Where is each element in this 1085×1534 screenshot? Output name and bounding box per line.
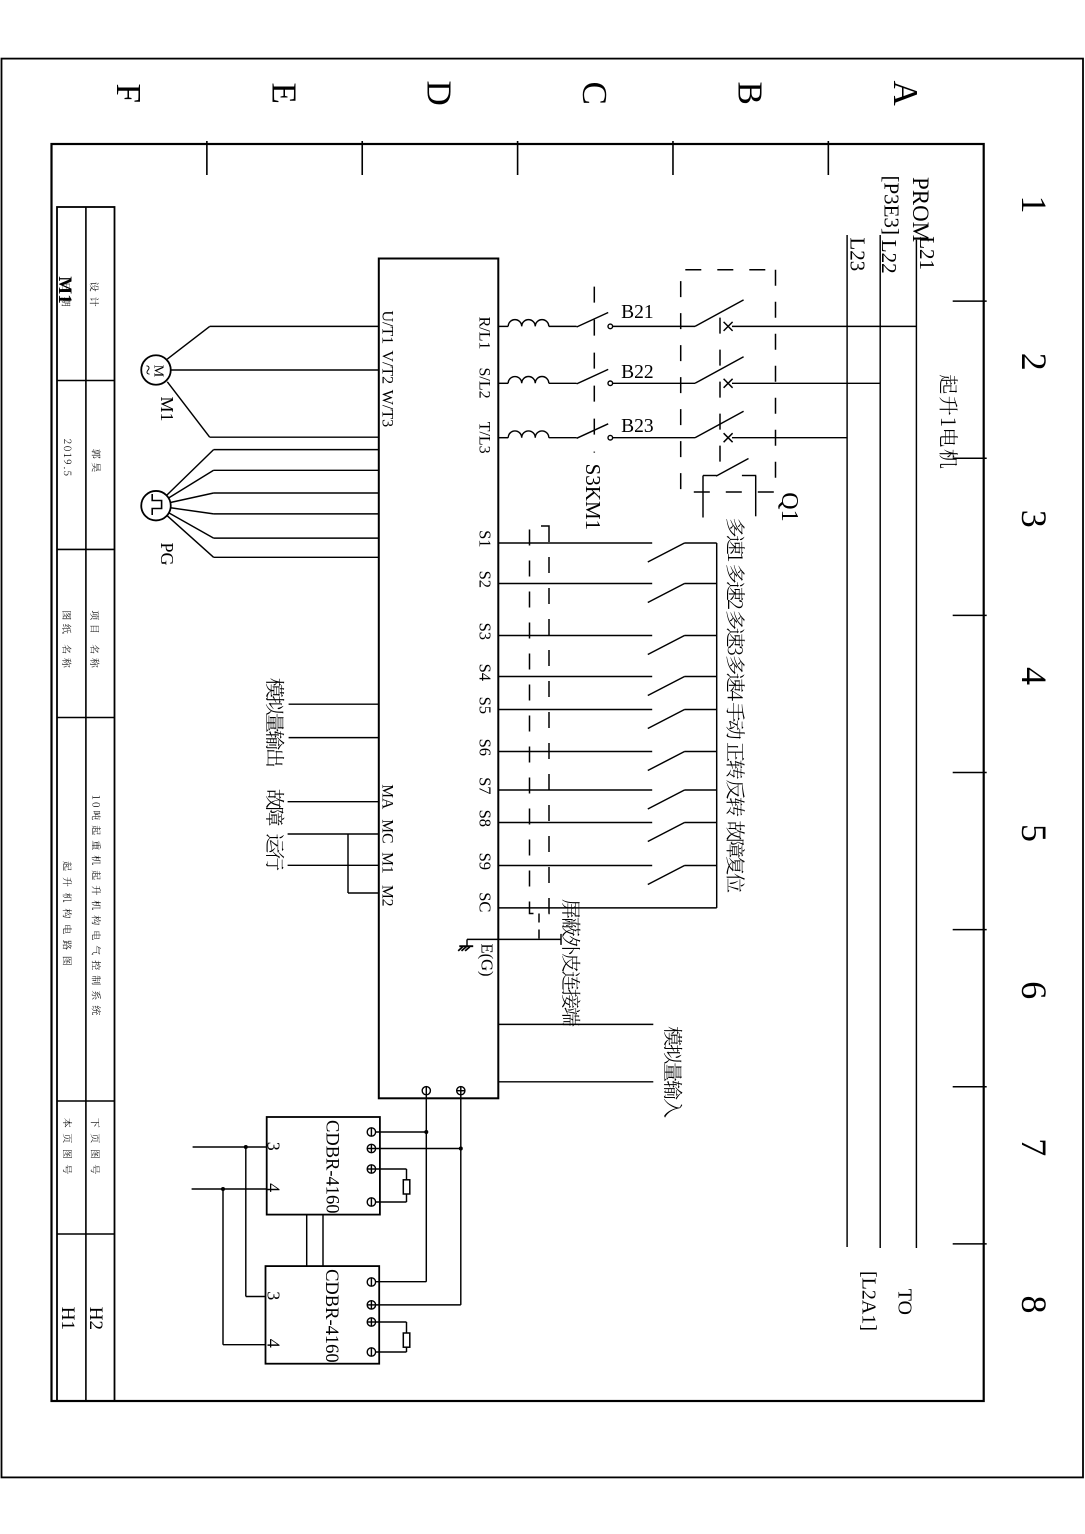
wire phase R/L1 lower xyxy=(549,325,577,327)
svg-text:S8: S8 xyxy=(476,810,495,827)
svg-text:M1: M1 xyxy=(54,276,75,303)
svg-text:R/L1: R/L1 xyxy=(476,317,493,350)
shield drain dashed xyxy=(538,914,540,940)
label switch function 多速3 xyxy=(726,611,744,654)
encoder PG circle xyxy=(141,491,171,521)
switch S9 stub xyxy=(685,865,717,867)
inverter U1 outline xyxy=(379,259,499,1099)
svg-text:C: C xyxy=(575,82,614,105)
motor M1 circle xyxy=(141,355,171,385)
svg-text:MC: MC xyxy=(379,819,396,843)
reactor coil S/L2 xyxy=(508,377,549,384)
CDBR1 terminal 3 plus xyxy=(367,1165,375,1173)
svg-text:H2: H2 xyxy=(85,1307,106,1330)
title cell date 2019.5 xyxy=(64,439,72,475)
svg-text:B22: B22 xyxy=(621,362,654,383)
wire DC minus xyxy=(425,1095,427,1282)
svg-text:U/T1: U/T1 xyxy=(379,311,396,345)
wire CDBR master-slave link 1 xyxy=(322,1215,324,1267)
svg-text:S/L2: S/L2 xyxy=(476,368,493,399)
wire S3 to inverter xyxy=(498,635,652,637)
junction dot terminal-3 xyxy=(244,1145,248,1149)
wire phase T/L3 lower xyxy=(549,437,577,439)
wire V/T2 to motor xyxy=(171,369,379,371)
wire PG 2 xyxy=(214,469,379,471)
title block column divider x=380 xyxy=(57,380,115,382)
label switch function 手动 xyxy=(726,703,744,739)
breaker Q1 contact x-mark S/L2 xyxy=(724,379,733,388)
svg-text:MA: MA xyxy=(379,784,396,810)
wire phase R/L1 upper xyxy=(732,325,916,327)
junction dot terminal-4 xyxy=(221,1187,225,1191)
breaker Q1 contact x-mark T/L3 xyxy=(724,433,733,442)
wire M2 xyxy=(348,892,379,894)
contactor S3KM1 linkage dashed xyxy=(593,287,595,453)
wire phase T/L3 middle xyxy=(613,437,695,439)
wire MA xyxy=(288,801,379,803)
wire S6 to inverter xyxy=(498,751,652,753)
switch S4 stub xyxy=(685,676,717,678)
breaker Q1 mechanism blade xyxy=(716,459,748,477)
svg-text:~: ~ xyxy=(137,365,158,375)
title cell riqi xyxy=(62,284,71,307)
wire phase T/L3 stub to inverter xyxy=(498,437,508,439)
switch S1 stub xyxy=(685,542,717,544)
wire PG 6 xyxy=(214,556,379,558)
CDBR2 terminal 2 plus xyxy=(367,1301,375,1309)
CDBR1 riser terminal2 xyxy=(376,1148,461,1150)
label switch function 正转 xyxy=(726,743,744,779)
breaker Q1 blade S/L2 xyxy=(695,357,744,384)
wire MC xyxy=(288,833,379,835)
svg-text:L23: L23 xyxy=(846,237,870,271)
switch S4 blade xyxy=(648,677,685,696)
switch S7 blade xyxy=(648,790,685,809)
svg-text:E(G): E(G) xyxy=(478,944,497,977)
contactor S3KM1 blade S/L2 xyxy=(577,369,609,384)
svg-text:M1: M1 xyxy=(157,397,177,422)
wire S5 to inverter xyxy=(498,709,652,711)
svg-text:4: 4 xyxy=(264,1339,284,1348)
svg-text:7: 7 xyxy=(1014,1138,1054,1156)
column zone tick 1 xyxy=(953,300,987,302)
svg-text:Q1: Q1 xyxy=(776,492,802,521)
title cell sheet name xyxy=(63,861,72,965)
wire phase R/L1 middle xyxy=(613,325,695,327)
wire DC plus xyxy=(460,1095,462,1305)
wire phase R/L1 stub to inverter xyxy=(498,325,508,327)
svg-text:S1: S1 xyxy=(476,530,495,547)
svg-text:L21: L21 xyxy=(915,236,939,270)
CDBR2 terminal 1 minus xyxy=(367,1278,375,1286)
svg-text:S3: S3 xyxy=(476,623,495,640)
title block column divider x=549 xyxy=(57,548,115,550)
encoder PG pulse symbol xyxy=(152,494,161,515)
wire PG 1 xyxy=(214,449,379,451)
reactor coil R/L1 xyxy=(508,320,549,327)
breaker Q1 mechanism lip upper xyxy=(742,475,756,477)
title cell guohao xyxy=(92,449,101,472)
wire M2 to MC link xyxy=(347,834,349,893)
wire U/T1 to motor xyxy=(210,325,379,327)
switch S2 stub xyxy=(685,583,717,585)
breaker Q1 dashed enclosure xyxy=(681,270,776,492)
switch S6 stub xyxy=(685,751,717,753)
junction dot plus/CDBR1 xyxy=(459,1147,463,1151)
CDBR2 terminal 4 minus xyxy=(367,1348,375,1356)
braking unit CDBR2 outline xyxy=(266,1266,380,1364)
svg-text:4: 4 xyxy=(264,1183,284,1192)
label switch function 多速1 xyxy=(726,519,744,561)
label fault xyxy=(266,790,284,826)
column zone tick 2 xyxy=(953,457,987,459)
shield terminal T-bar xyxy=(560,934,562,945)
reactor coil T/L3 xyxy=(508,431,549,438)
switch S3 blade xyxy=(648,636,685,655)
svg-text:E: E xyxy=(264,83,303,104)
title cell tuzhimingcheng xyxy=(62,611,71,667)
wire analog input 2 xyxy=(498,1081,653,1083)
CDBR1 terminal 2 plus xyxy=(367,1144,375,1152)
wire phase S/L2 middle xyxy=(613,382,695,384)
svg-text:CDBR-4160: CDBR-4160 xyxy=(321,1269,341,1363)
row zone tick D xyxy=(361,141,363,175)
wire SC riser xyxy=(498,907,716,909)
svg-text:W/T3: W/T3 xyxy=(379,390,396,427)
switch S9 blade xyxy=(648,866,685,885)
wire S2 to inverter xyxy=(498,583,652,585)
CDBR2 terminal 3 plus xyxy=(367,1318,375,1326)
column zone tick 5 xyxy=(953,929,987,931)
label switch function 多速2 xyxy=(726,565,744,609)
row zone tick E xyxy=(206,141,208,175)
svg-text:1: 1 xyxy=(1014,196,1054,214)
svg-text:S5: S5 xyxy=(476,697,495,714)
title block row divider xyxy=(85,207,87,1401)
title cell sheji xyxy=(90,282,99,306)
CDBR1 terminal 1 minus xyxy=(367,1128,375,1136)
switch S2 blade xyxy=(648,584,685,603)
svg-text:D: D xyxy=(420,81,459,106)
wire CDBR terminal-4 bus xyxy=(192,1188,267,1190)
CDBR1 riser terminal1 xyxy=(376,1131,427,1133)
svg-text:3: 3 xyxy=(264,1291,284,1300)
wire S1 to inverter xyxy=(498,542,652,544)
svg-text:8: 8 xyxy=(1014,1295,1054,1313)
wire analog input 1 xyxy=(498,1023,653,1025)
column zone tick 3 xyxy=(953,614,987,616)
svg-text:5: 5 xyxy=(1014,824,1054,842)
svg-text:4: 4 xyxy=(1014,667,1054,685)
label switch function 反转 xyxy=(726,780,744,816)
switch S5 stub xyxy=(685,709,717,711)
svg-text:6: 6 xyxy=(1014,981,1054,999)
label analog input xyxy=(664,1027,683,1118)
switch S5 blade xyxy=(648,710,685,729)
contactor S3KM1 contact circle R/L1 xyxy=(608,324,613,329)
row zone tick C xyxy=(517,141,519,175)
breaker Q1 mechanism lip lower xyxy=(703,475,717,477)
shielded cable dashed box xyxy=(530,526,550,914)
breaker Q1 contact x-mark R/L1 xyxy=(724,322,733,331)
wire PG 5 xyxy=(214,537,379,539)
resistor R1 xyxy=(403,1180,410,1194)
wire phase S/L2 upper xyxy=(732,382,880,384)
title block column divider x=1234 xyxy=(57,1233,115,1235)
wire L23 bus xyxy=(846,235,848,1247)
switch S1 blade xyxy=(648,543,685,562)
breaker Q1 mechanism rail upper xyxy=(755,476,757,516)
svg-text:M2: M2 xyxy=(379,885,396,907)
svg-text:H1: H1 xyxy=(57,1307,78,1330)
svg-text:B: B xyxy=(730,82,769,105)
title cell xiangmumingcheng xyxy=(90,611,99,668)
contactor S3KM1 blade R/L1 xyxy=(577,313,609,328)
svg-text:[P3E3]: [P3E3] xyxy=(880,176,904,236)
label hoist motor 1 xyxy=(939,375,957,468)
ground chassis hatches xyxy=(466,939,468,946)
contactor S3KM1 blade T/L3 xyxy=(577,424,609,439)
row zone tick A xyxy=(827,141,829,175)
wire phase S/L2 lower xyxy=(549,382,577,384)
label shield connection xyxy=(562,900,580,1027)
svg-text:F: F xyxy=(109,83,148,102)
title cell project name xyxy=(92,796,101,1015)
contactor S3KM1 contact circle T/L3 xyxy=(608,435,613,440)
svg-text:PROM: PROM xyxy=(908,177,933,242)
svg-text:S6: S6 xyxy=(476,739,495,756)
svg-text:S3KM1: S3KM1 xyxy=(581,464,605,531)
wire common bus of selector switches xyxy=(716,543,718,908)
wire S9 to inverter xyxy=(498,865,652,867)
svg-text:B21: B21 xyxy=(621,302,654,323)
breaker Q1 blade T/L3 xyxy=(695,411,744,438)
contactor S3KM1 contact circle S/L2 xyxy=(608,381,613,386)
column zone tick 4 xyxy=(953,772,987,774)
label run xyxy=(266,834,284,870)
junction dot minus/CDBR1 xyxy=(424,1130,428,1134)
wire E(G) vertical xyxy=(467,938,561,940)
svg-text:S7: S7 xyxy=(476,777,495,794)
svg-text:3: 3 xyxy=(1014,510,1054,528)
label switch function 故障复位 xyxy=(726,821,744,892)
svg-text:S9: S9 xyxy=(476,853,495,870)
CDBR1 resistor loop right xyxy=(406,1194,408,1202)
svg-text:PG: PG xyxy=(157,543,177,566)
column zone tick 6 xyxy=(953,1086,987,1088)
breaker Q1 linkage dashed xyxy=(719,318,721,474)
wire M1 output xyxy=(288,864,379,866)
breaker Q1 blade R/L1 xyxy=(695,300,744,327)
breaker Q1 mechanism rail lower xyxy=(702,476,704,518)
svg-text:[L2A1]: [L2A1] xyxy=(858,1271,880,1331)
switch S8 blade xyxy=(648,823,685,842)
wire phase T/L3 upper xyxy=(732,437,847,439)
wire CDBR terminal-3 bus xyxy=(193,1146,267,1148)
inverter terminal plus xyxy=(457,1087,465,1095)
title cell xiayetuhao xyxy=(91,1118,100,1174)
wire S8 to inverter xyxy=(498,822,652,824)
wire phase S/L2 stub to inverter xyxy=(498,382,508,384)
wire analog output 2 xyxy=(289,737,379,739)
svg-text:2: 2 xyxy=(1014,353,1054,371)
switch S6 blade xyxy=(648,752,685,771)
svg-text:S2: S2 xyxy=(476,571,495,588)
svg-text:M1: M1 xyxy=(379,852,396,874)
wire S4 to inverter xyxy=(498,676,652,678)
CDBR1 resistor loop left xyxy=(376,1168,407,1170)
svg-text:T/L3: T/L3 xyxy=(476,422,493,454)
CDBR2 resistor loop left xyxy=(376,1321,407,1323)
svg-text:V/T2: V/T2 xyxy=(379,350,396,384)
svg-text:S4: S4 xyxy=(476,664,495,681)
switch S7 stub xyxy=(685,789,717,791)
switch S8 stub xyxy=(685,822,717,824)
wire PG 3 xyxy=(214,492,379,494)
column zone tick 7 xyxy=(953,1243,987,1245)
svg-text:CDBR-4160: CDBR-4160 xyxy=(322,1120,342,1214)
svg-text:L22: L22 xyxy=(877,240,901,274)
title cell benyetuhao xyxy=(63,1118,72,1174)
wire S7 to inverter xyxy=(498,789,652,791)
drawing inner frame xyxy=(52,144,984,1401)
label analog output xyxy=(266,678,285,766)
wire W/T3 to motor xyxy=(210,436,379,438)
CDBR2 resistor loop right xyxy=(406,1347,408,1352)
svg-text:B23: B23 xyxy=(621,416,654,437)
inverter terminal minus xyxy=(422,1087,430,1095)
svg-text:SC: SC xyxy=(476,892,495,912)
svg-text:TO: TO xyxy=(894,1289,916,1315)
wire analog output 1 xyxy=(289,703,379,705)
label switch function 多速4 xyxy=(726,656,744,700)
braking unit CDBR1 outline xyxy=(267,1117,380,1215)
row zone tick B xyxy=(672,141,674,175)
title block outline xyxy=(57,207,115,1401)
resistor R2 xyxy=(403,1333,410,1347)
wire PG 4 xyxy=(214,513,379,515)
title block column divider x=717 xyxy=(57,717,115,719)
title block column divider x=1101 xyxy=(57,1100,115,1102)
wire CDBR master-slave link 2 xyxy=(306,1215,308,1267)
switch S3 stub xyxy=(685,635,717,637)
CDBR1 terminal 4 minus xyxy=(367,1198,375,1206)
wire L22 bus xyxy=(879,235,881,1248)
svg-text:A: A xyxy=(886,81,925,107)
wire L21 bus xyxy=(915,240,917,1248)
